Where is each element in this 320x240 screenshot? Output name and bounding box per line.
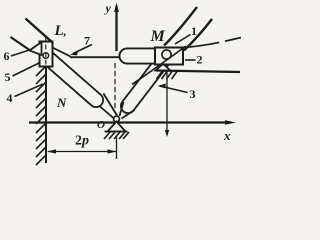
pin at O: [114, 116, 120, 122]
svg-text:O: O: [97, 119, 105, 131]
svg-text:6: 6: [4, 49, 10, 63]
leader 5: [13, 63, 41, 77]
vertical projection line from M support to x-axis: [166, 70, 168, 135]
centerline through O (dash): [114, 63, 116, 112]
svg-text:x: x: [223, 128, 231, 143]
paper background: [0, 0, 241, 166]
short link from L block: [53, 48, 71, 57]
dashed trajectory curve: [184, 38, 242, 48]
svg-text:N: N: [56, 95, 67, 110]
leader 1: [175, 35, 191, 45]
svg-text:1: 1: [191, 24, 197, 38]
leader 4: [15, 84, 44, 97]
support triangle under M: [156, 64, 171, 71]
pin circle in M: [162, 50, 171, 59]
dimension arrow right: [108, 149, 117, 153]
hatching under rail: [157, 72, 178, 80]
leader 6: [11, 50, 31, 57]
wall hatching: [36, 66, 46, 165]
leader 7: [73, 45, 92, 54]
svg-text:2p: 2p: [75, 134, 89, 149]
x-axis arrowhead: [225, 120, 236, 125]
rod 1 long line: [164, 7, 197, 46]
svg-text:7: 7: [84, 34, 90, 48]
wall flag triangle: [30, 42, 42, 55]
dimension line 2p: [48, 151, 116, 153]
svg-text:L,: L,: [54, 23, 67, 39]
y-axis arrowhead: [114, 3, 119, 13]
slider block L centerline: [45, 37, 47, 73]
leader 2: [185, 59, 196, 61]
svg-text:2: 2: [197, 53, 203, 67]
wall guide line (fixed vertical guide): [45, 66, 47, 163]
svg-text:y: y: [104, 1, 112, 15]
x-axis: [29, 121, 231, 123]
rod upper-left long line: [26, 19, 54, 44]
neck lines right capsule to pin O: [120, 102, 124, 116]
leader 3: [160, 86, 188, 93]
dimension arrow left: [47, 149, 56, 153]
ground rail right: [156, 71, 240, 73]
svg-text:M: M: [150, 28, 166, 45]
svg-text:5: 5: [5, 70, 11, 84]
link LO capsule (slotted rod from slider L to O): [48, 58, 96, 100]
y-axis: [115, 6, 117, 51]
rod to flag line: [11, 37, 30, 50]
rod 7 horizontal: [70, 56, 119, 58]
slider block M: [155, 48, 183, 65]
svg-text:3: 3: [190, 87, 196, 101]
neck lines left capsule to pin O: [100, 107, 114, 119]
support base line at O: [105, 131, 128, 133]
svg-text:4: 4: [7, 91, 13, 105]
rod through slider M: [132, 46, 186, 85]
support triangle at O: [108, 122, 126, 132]
slider block L: [40, 42, 53, 67]
horizontal slot capsule at y-axis: [127, 48, 175, 65]
dimension extension line below O: [116, 136, 118, 159]
link MO capsule (slotted rod from slider M to O): [128, 59, 164, 106]
rod B long line: [184, 19, 212, 51]
pin circle in L: [43, 53, 49, 59]
hatching under O support: [104, 132, 129, 139]
